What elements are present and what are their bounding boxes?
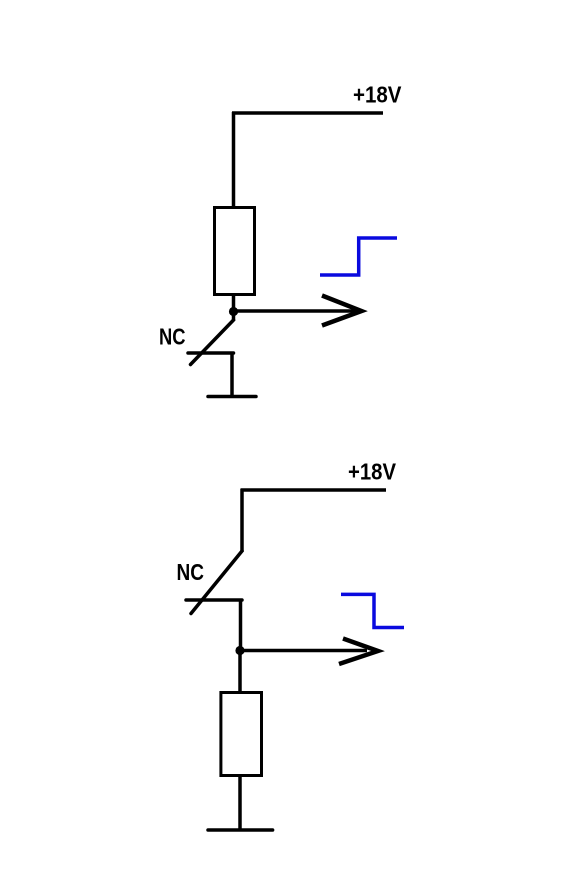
svg-text:NC: NC	[177, 559, 205, 585]
svg-text:+18V: +18V	[348, 459, 397, 485]
svg-text:+18V: +18V	[353, 82, 402, 108]
svg-text:NC: NC	[159, 324, 186, 350]
